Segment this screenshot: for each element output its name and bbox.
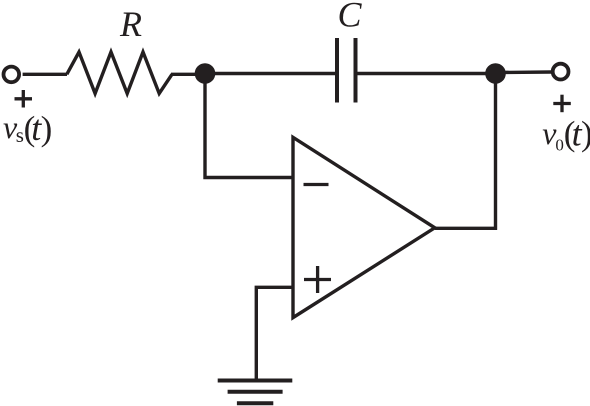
node A junction dot bbox=[195, 63, 216, 84]
wire node A down to inverting input bbox=[205, 74, 293, 178]
ground middle bar bbox=[228, 390, 283, 394]
plus polarity at output bbox=[553, 102, 571, 105]
input terminal (open circle) bbox=[4, 67, 20, 83]
ground bottom bar bbox=[237, 401, 273, 405]
resistor R1 zigzag bbox=[67, 52, 172, 94]
wire node A to capacitor bbox=[205, 72, 335, 75]
node B junction dot bbox=[485, 63, 506, 84]
svg-text:C: C bbox=[337, 0, 362, 35]
ground top bar bbox=[218, 379, 293, 383]
op-amp minus pin mark bbox=[304, 183, 329, 186]
capacitor C right plate bbox=[354, 38, 358, 103]
svg-text:v0(t): v0(t) bbox=[542, 114, 590, 155]
wire resistor to node A bbox=[171, 73, 198, 76]
op-amp U1 triangle bbox=[293, 137, 435, 317]
wire op-amp output bbox=[435, 227, 497, 230]
wire node B to output terminal bbox=[496, 70, 552, 74]
plus polarity at input bbox=[15, 97, 33, 100]
wire capacitor to node B bbox=[358, 72, 496, 75]
wire node B down to output wire bbox=[494, 74, 497, 230]
svg-text:R: R bbox=[119, 4, 142, 44]
svg-text:vs(t): vs(t) bbox=[3, 108, 52, 148]
output terminal (open circle) bbox=[553, 64, 569, 80]
wire noninverting input to ground bbox=[256, 287, 293, 380]
wire input to resistor bbox=[23, 73, 67, 76]
capacitor C left plate bbox=[335, 38, 339, 103]
op-amp plus pin mark bbox=[304, 278, 331, 281]
